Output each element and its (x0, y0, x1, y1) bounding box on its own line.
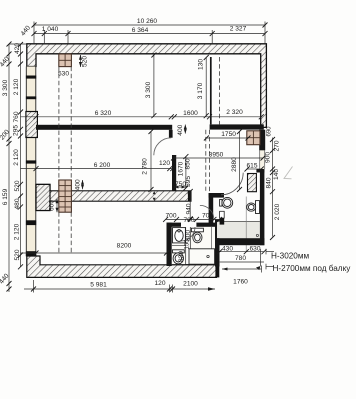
svg-text:295: 295 (13, 125, 20, 136)
wall pier (26, 96, 36, 99)
WC right wall / bathroom left (215, 220, 220, 267)
top dim line 1 (34, 24, 265, 26)
svg-text:530: 530 (58, 71, 69, 78)
ticks (7, 23, 276, 292)
600 arrow col2 (56, 199, 58, 212)
bathroom bottom wall (217, 238, 265, 245)
svg-text:270: 270 (274, 140, 281, 151)
bathroom hatched pier (248, 174, 257, 192)
svg-text:6 200: 6 200 (94, 162, 111, 169)
WC floors (172, 227, 186, 265)
line2 ticks (32, 31, 268, 36)
wall pier (26, 160, 36, 163)
700 dim line (166, 218, 220, 220)
svg-text:120: 120 (159, 160, 170, 167)
svg-text:2 120: 2 120 (13, 149, 20, 166)
right wall segment below col (259, 130, 265, 151)
left outer dim line (8, 44, 10, 292)
interior wall 2 (hatched) (36, 191, 191, 201)
bathroom right wall (260, 169, 265, 245)
bottom ticks (31, 287, 175, 292)
3170 ticks (204, 55, 209, 118)
line1 ticks (32, 23, 268, 28)
6200 ticks (34, 166, 176, 171)
700 ticks (163, 217, 222, 222)
svg-text:1750: 1750 (221, 131, 236, 138)
svg-text:2 327: 2 327 (230, 26, 247, 33)
svg-text:6 159: 6 159 (2, 188, 9, 205)
corridor L wall vertical (209, 193, 214, 225)
svg-text:1 040: 1 040 (42, 26, 59, 33)
svg-text:700: 700 (202, 213, 213, 220)
WC top wall left segment (167, 223, 182, 227)
svg-text:2880: 2880 (231, 157, 238, 172)
1760 left arrow (222, 268, 228, 271)
left inner ticks (18, 42, 23, 269)
1670 vertical closet (185, 157, 187, 188)
svg-text:120: 120 (154, 280, 165, 287)
wall 2 end cap (188, 191, 191, 201)
svg-text:840: 840 (266, 177, 273, 188)
svg-text:520: 520 (14, 180, 21, 191)
mid vertical wall (172, 155, 176, 191)
right vertical dim (272, 138, 274, 237)
2880 vertical (239, 132, 241, 190)
8200 dim line (21, 252, 167, 254)
H annotations (271, 252, 351, 274)
bottom main dim (24, 288, 215, 290)
svg-text:8200: 8200 (117, 243, 132, 250)
svg-text:Н-3020мм: Н-3020мм (271, 252, 309, 261)
H leader arrow (256, 266, 261, 270)
WC left wall (167, 223, 172, 266)
svg-text:3950: 3950 (209, 152, 224, 159)
H leader (260, 249, 262, 266)
svg-text:839: 839 (178, 251, 185, 262)
430 630 ticks (217, 249, 266, 254)
615 ticks (245, 167, 264, 172)
svg-text:940: 940 (186, 203, 193, 214)
bottom dim arrow (208, 287, 215, 291)
bathroom floor (217, 222, 260, 239)
block C over wall2 (36, 184, 50, 210)
svg-text:3 300: 3 300 (145, 81, 152, 98)
3170 vertical (205, 58, 207, 116)
8200 ticks (34, 251, 170, 256)
WC divider (185, 227, 187, 264)
top-right room left wall (210, 57, 212, 124)
bottom outer wall (hatched) (27, 256, 217, 277)
2780 vertical (150, 132, 152, 190)
600 arrows (56, 199, 59, 212)
svg-text:2 320: 2 320 (226, 109, 243, 116)
svg-text:700: 700 (183, 217, 194, 224)
svg-text:2 120: 2 120 (13, 78, 20, 95)
bathroom toilet (247, 201, 260, 214)
wall block C (36, 184, 50, 210)
interior wall 1 right segment (210, 124, 264, 129)
svg-text:2 120: 2 120 (14, 223, 21, 240)
svg-text:850: 850 (185, 158, 192, 169)
400 arrow col2 (82, 180, 84, 189)
520 arrow top-left (80, 55, 82, 67)
section mark wall2 (153, 191, 156, 201)
window band left wall (26, 67, 36, 257)
750 small dim (174, 186, 186, 188)
svg-text:600: 600 (49, 200, 56, 211)
wall pier (26, 76, 36, 79)
430 630 dim (220, 251, 264, 253)
shower tray (189, 249, 215, 264)
svg-text:1670: 1670 (178, 161, 185, 176)
svg-text:700: 700 (165, 213, 176, 220)
left WC door arc (181, 227, 195, 241)
right column ticks (270, 137, 275, 240)
svg-text:6 320: 6 320 (95, 110, 112, 117)
bathroom top stub (256, 169, 264, 173)
svg-text:5 981: 5 981 (90, 282, 107, 289)
WC top wall right segment (196, 223, 216, 227)
interior wall 1 left segment (36, 125, 172, 130)
bottom wall right cap (215, 260, 219, 278)
corridor L wall horizontal (209, 193, 224, 198)
left outer ticks (7, 42, 12, 292)
1750 dim (206, 137, 248, 139)
svg-text:400: 400 (177, 124, 184, 135)
left WC toilet (173, 250, 185, 264)
duct black square (220, 211, 225, 218)
1750 ticks (204, 136, 251, 141)
svg-text:800: 800 (185, 230, 192, 241)
wall pier (26, 220, 36, 225)
3300 vert ticks (151, 53, 156, 119)
left WC sink (173, 228, 186, 243)
520 arrow head (79, 55, 82, 60)
svg-text:3 300: 3 300 (2, 79, 9, 96)
svg-text:420: 420 (14, 43, 21, 54)
svg-text:Н-2700мм под балку: Н-2700мм под балку (273, 264, 352, 273)
left inner dim line (20, 44, 22, 267)
svg-text:760: 760 (13, 111, 20, 122)
svg-text:1760: 1760 (233, 279, 248, 286)
svg-text:900: 900 (265, 152, 272, 163)
615 dim (247, 168, 261, 170)
svg-text:780: 780 (235, 255, 246, 262)
750 arrows (174, 186, 186, 189)
svg-text:140: 140 (273, 169, 280, 180)
WC bottom line (172, 264, 215, 266)
940 ticks (188, 189, 193, 221)
2780 ticks (149, 129, 154, 192)
940 vertical (189, 192, 191, 219)
svg-text:6 364: 6 364 (132, 27, 149, 34)
svg-text:630: 630 (249, 246, 260, 253)
right window opening (260, 150, 265, 169)
3300 interior vertical (153, 55, 155, 116)
svg-text:150: 150 (185, 239, 191, 250)
svg-text:480: 480 (14, 198, 21, 209)
dashed lines column 1 (59, 57, 220, 253)
brick column C3 (247, 131, 260, 145)
3950 dim (174, 157, 264, 159)
outer wall top + right (hatched) (27, 44, 267, 128)
svg-text:3 170: 3 170 (197, 82, 204, 99)
svg-text:2 780: 2 780 (142, 158, 149, 175)
svg-text:130: 130 (198, 59, 205, 70)
brick column C1 (59, 54, 72, 67)
svg-text:1600: 1600 (183, 110, 198, 117)
svg-text:690: 690 (267, 126, 273, 137)
wall pier (26, 251, 36, 256)
3950 ticks (171, 156, 266, 161)
6320 line ticks (34, 114, 264, 119)
faint pencil mark (284, 167, 293, 179)
svg-text:520: 520 (14, 249, 21, 260)
right WC door arc (200, 205, 214, 219)
2880 ticks (237, 129, 242, 192)
shower screen line (211, 227, 213, 249)
right WC toilet (191, 228, 203, 243)
780 dim (220, 261, 264, 263)
svg-text:615: 615 (246, 163, 257, 170)
wall block B (26, 112, 38, 138)
svg-text:430: 430 (222, 246, 233, 253)
door arc middle room (154, 138, 171, 155)
1670 ticks (183, 154, 188, 190)
svg-text:520: 520 (82, 56, 89, 67)
400 arrows hall (184, 125, 187, 134)
bathroom door arc (221, 173, 243, 195)
1760 dim (222, 268, 262, 270)
6320/1600/2320 dim line (21, 116, 262, 118)
svg-text:2 020: 2 020 (274, 203, 281, 220)
400 arrows col2 (81, 180, 84, 189)
svg-text:595: 595 (185, 176, 192, 187)
top dim line 2 (34, 33, 265, 35)
interior wall 1 end cap (169, 130, 173, 138)
svg-text:2100: 2100 (183, 281, 198, 288)
svg-text:10 260: 10 260 (137, 18, 158, 25)
6200 dim line (21, 168, 173, 170)
brick column C2 (59, 180, 72, 212)
svg-text:400: 400 (75, 179, 82, 190)
bathroom sink (220, 197, 233, 208)
400 arrow hall (184, 125, 186, 134)
